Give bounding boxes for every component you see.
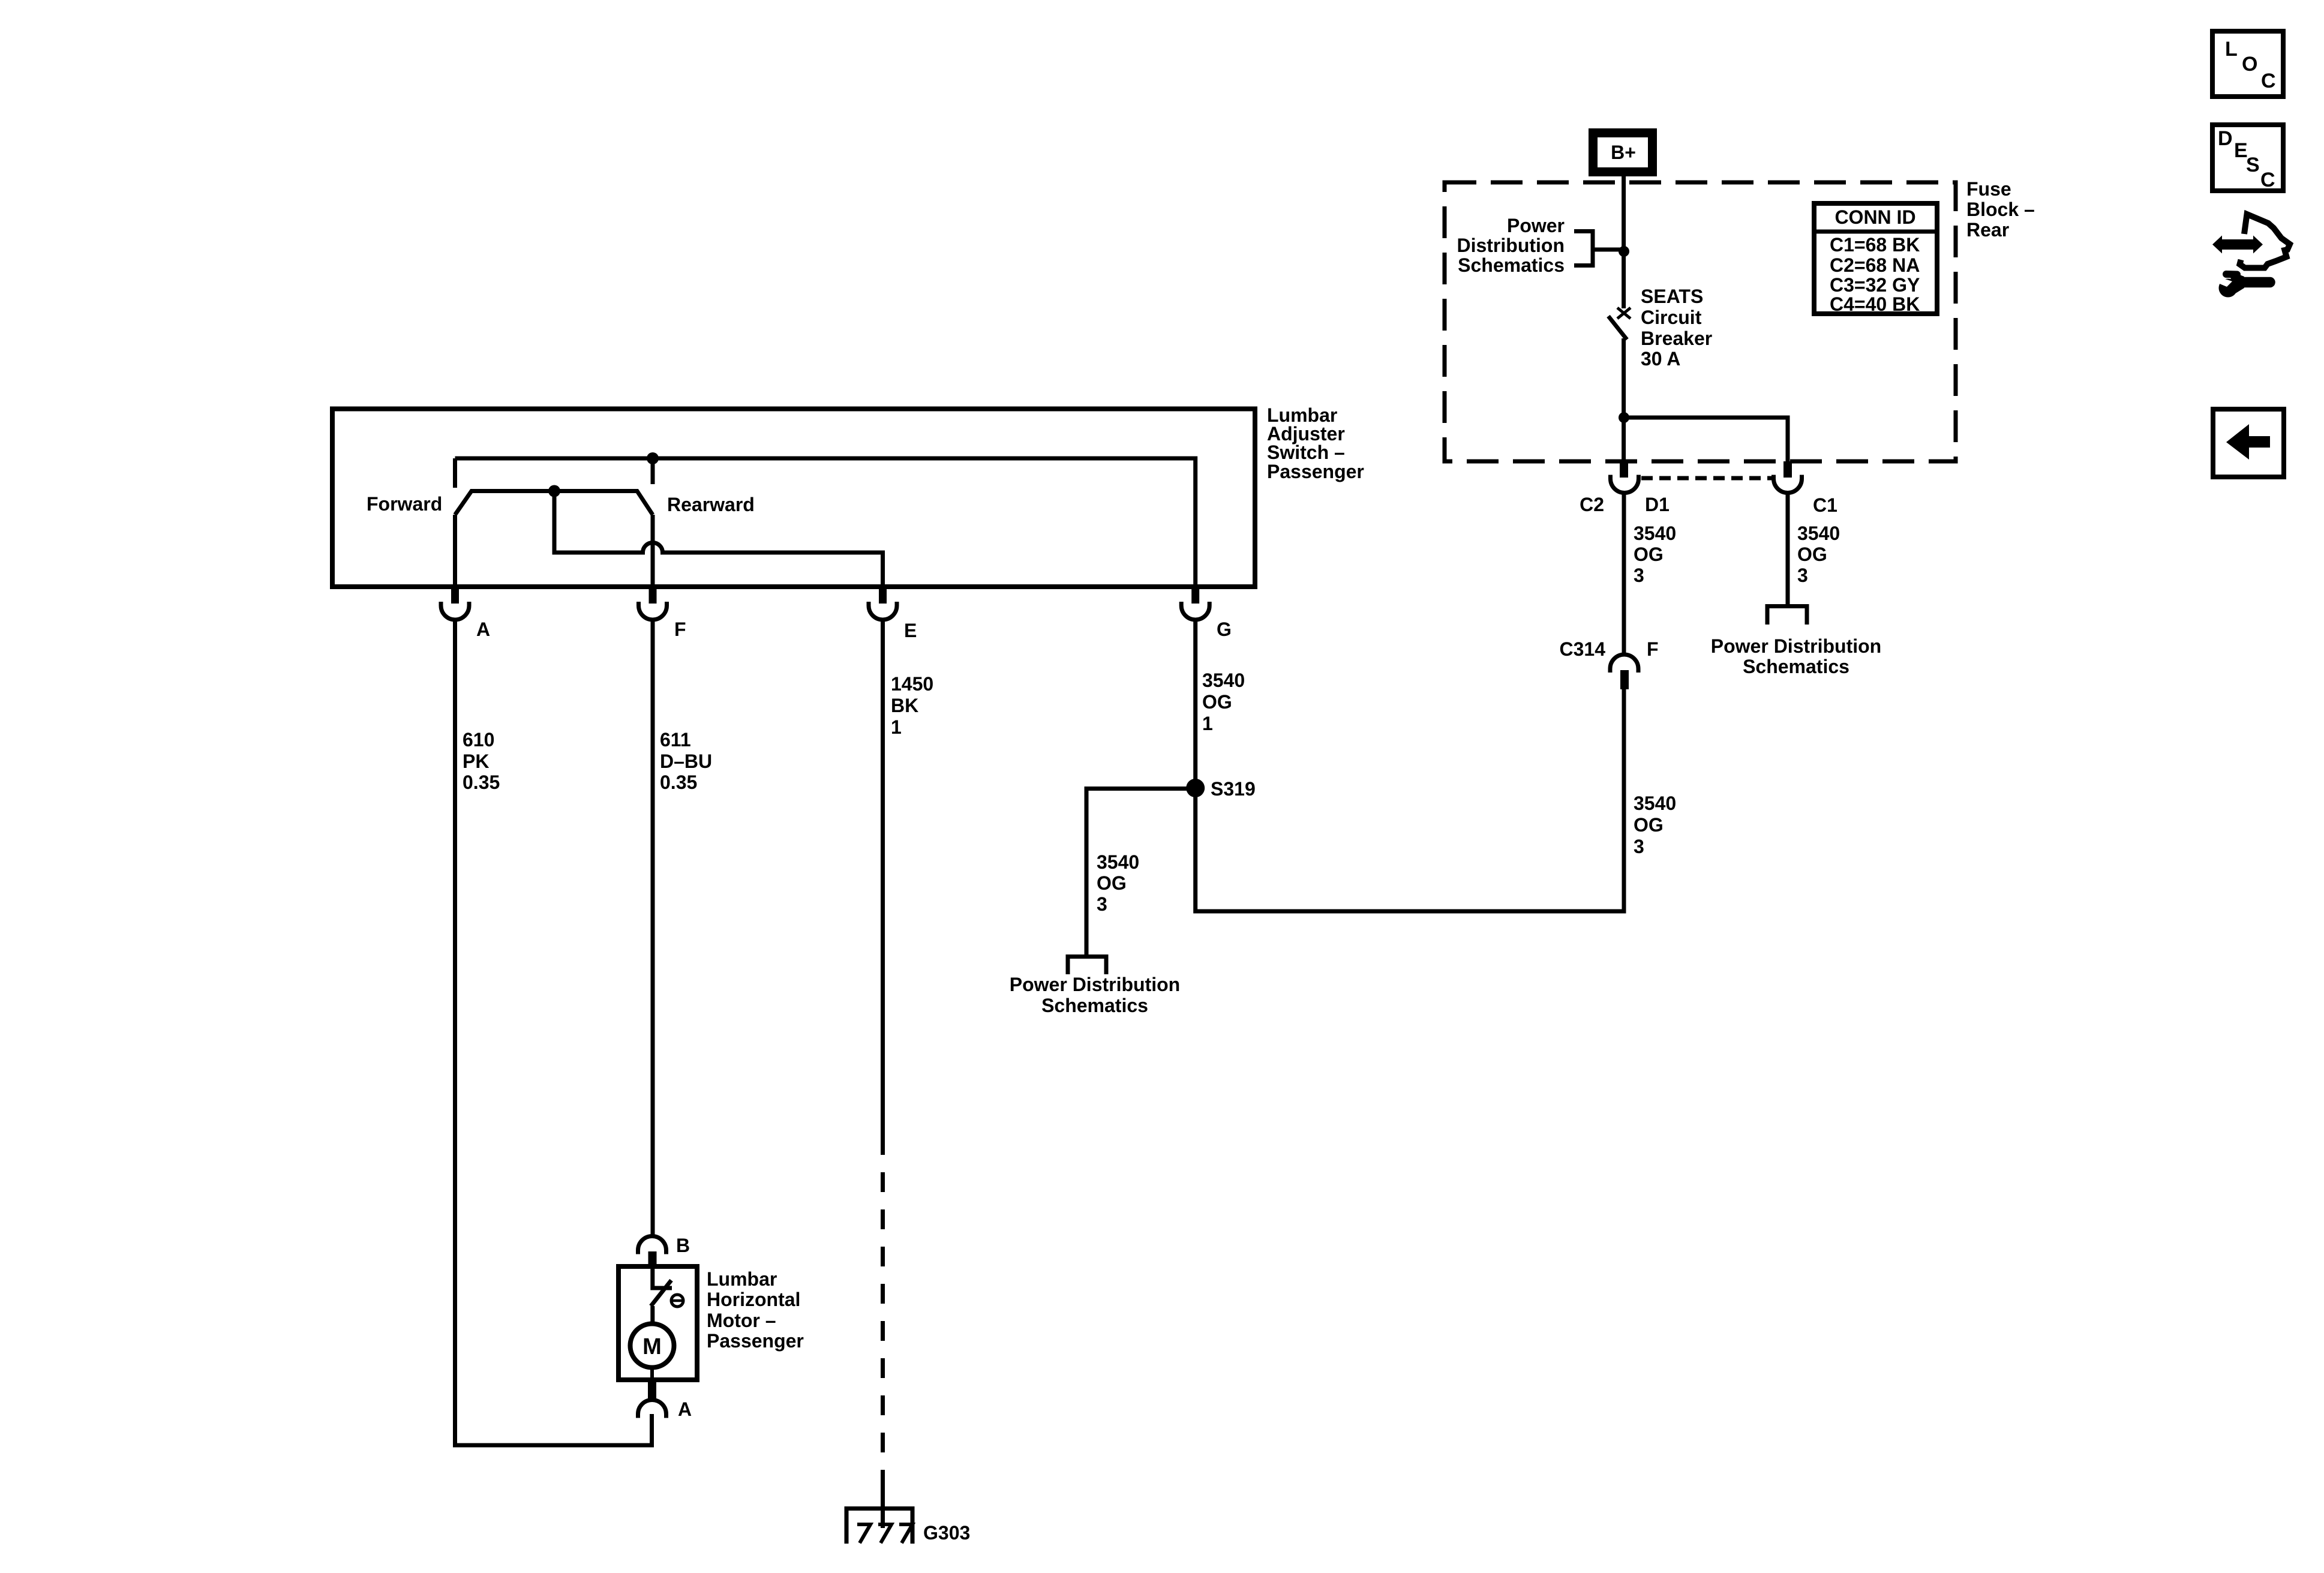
connector C314 pin F [1560, 638, 1659, 689]
svg-text:1: 1 [891, 716, 902, 738]
forward contact [453, 458, 457, 488]
svg-text:Block –: Block – [1966, 199, 2035, 220]
wire bracket to main line [1593, 248, 1624, 252]
connector A (switch) [441, 589, 490, 640]
svg-text:OG: OG [1634, 544, 1664, 565]
svg-text:D1: D1 [1645, 494, 1670, 515]
circuit breaker SEATS 30 A [1608, 308, 1631, 340]
svg-text:Motor –: Motor – [707, 1310, 776, 1331]
svg-text:Rear: Rear [1966, 219, 2009, 241]
connector A (motor) [638, 1380, 692, 1420]
wire label 610 PK 0.35 [463, 729, 500, 793]
junction rearward contact [647, 452, 659, 464]
svg-text:Switch –: Switch – [1267, 442, 1345, 463]
label Lumbar Horizontal Motor - Passenger [707, 1268, 804, 1352]
junction split to C1 [1619, 412, 1629, 423]
connector G (switch) [1181, 589, 1232, 640]
connector F (switch) [639, 589, 686, 640]
svg-text:G: G [1217, 619, 1232, 640]
wire label 611 D-BU 0.35 [660, 729, 712, 793]
svg-text:3540: 3540 [1202, 670, 1245, 691]
connector C1 [1774, 461, 1837, 516]
bridge tap wire to E with hop over F [554, 491, 883, 587]
svg-text:CONN ID: CONN ID [1834, 206, 1915, 228]
svg-text:Circuit: Circuit [1641, 307, 1702, 328]
svg-text:D–BU: D–BU [660, 751, 712, 772]
svg-text:O: O [2242, 53, 2257, 76]
svg-text:L: L [2225, 38, 2238, 61]
icon back arrow [2213, 409, 2284, 477]
svg-text:611: 611 [660, 729, 691, 751]
wire breaker to C2 exit [1622, 338, 1626, 463]
wire breaker to motor [650, 1306, 654, 1325]
icon DESC [2212, 125, 2283, 191]
connector B (motor) [638, 1235, 690, 1267]
svg-text:BK: BK [891, 695, 918, 716]
svg-text:3: 3 [1634, 565, 1644, 586]
wire S319 to power distribution reference [1086, 789, 1196, 957]
svg-text:Schematics: Schematics [1041, 995, 1148, 1016]
junction bridge tap [548, 485, 560, 497]
svg-text:OG: OG [1634, 814, 1664, 836]
wire C2 to C314 [1622, 493, 1626, 655]
svg-text:30 A: 30 A [1641, 348, 1680, 370]
svg-text:OG: OG [1202, 691, 1232, 713]
svg-text:Lumbar: Lumbar [707, 1268, 777, 1290]
connector E (switch) [869, 589, 917, 641]
svg-text:F: F [674, 619, 686, 640]
schematic reference symbol (S319 branch) [1068, 957, 1106, 975]
wire C314 to S319 [1196, 689, 1624, 911]
svg-text:M: M [642, 1334, 662, 1359]
icon connector wrench [2212, 214, 2290, 298]
junction power distribution tap [1619, 246, 1629, 257]
wire F switch to motor B [651, 620, 655, 1236]
svg-text:C: C [2260, 169, 2275, 191]
svg-text:C1=68 BK: C1=68 BK [1830, 234, 1920, 256]
motor thermal breaker [651, 1266, 672, 1306]
wire to C1 exit [1624, 418, 1788, 463]
svg-text:Forward: Forward [367, 493, 442, 515]
wire B+ to circuit breaker [1622, 176, 1626, 308]
svg-text:G303: G303 [923, 1522, 970, 1544]
svg-text:Schematics: Schematics [1458, 254, 1565, 276]
svg-text:Horizontal: Horizontal [707, 1289, 800, 1310]
svg-text:S: S [2246, 154, 2260, 176]
svg-text:1: 1 [1202, 713, 1213, 734]
wire A inside box [453, 515, 457, 587]
svg-text:Passenger: Passenger [1267, 461, 1364, 482]
svg-text:C4=40 BK: C4=40 BK [1830, 293, 1920, 315]
motor M [630, 1324, 674, 1368]
svg-text:Breaker: Breaker [1641, 328, 1712, 349]
svg-text:Power Distribution: Power Distribution [1010, 974, 1180, 995]
svg-text:C: C [2261, 70, 2276, 92]
svg-text:Fuse: Fuse [1966, 178, 2011, 200]
label Power Distribution Schematics (C1) [1711, 635, 1881, 677]
wire C1 to power distribution reference [1786, 493, 1790, 607]
wire label 3540 OG 3 (C2 to C314) [1634, 523, 1676, 586]
wire G to S319 [1193, 620, 1197, 788]
power symbol B+ [1593, 133, 1653, 172]
svg-text:3540: 3540 [1634, 523, 1676, 544]
svg-text:SEATS: SEATS [1641, 286, 1703, 307]
splice S319 [1186, 779, 1205, 797]
lumbar adjuster switch box [332, 409, 1255, 587]
svg-text:Rearward: Rearward [667, 494, 755, 515]
wire label 3540 OG 3 (S319 branch) [1097, 851, 1139, 915]
wire label 3540 OG 3 (C1) [1797, 523, 1840, 586]
svg-text:3540: 3540 [1634, 792, 1676, 814]
svg-text:3: 3 [1097, 893, 1107, 915]
svg-text:610: 610 [463, 729, 494, 751]
rearward contact [651, 458, 655, 484]
svg-text:Passenger: Passenger [707, 1330, 804, 1352]
wire motor to box bottom [650, 1368, 654, 1380]
svg-text:C314: C314 [1560, 638, 1606, 660]
svg-text:B+: B+ [1611, 142, 1636, 163]
wire label 3540 OG 1 [1202, 670, 1245, 734]
wire A switch to motor [455, 620, 652, 1445]
svg-text:PK: PK [463, 751, 489, 772]
svg-text:OG: OG [1797, 544, 1827, 565]
svg-text:Distribution: Distribution [1457, 235, 1565, 256]
switch internal supply line from G [455, 458, 1196, 587]
wire label 1450 BK 1 [891, 673, 933, 738]
label Lumbar Adjuster Switch - Passenger [1267, 404, 1364, 482]
svg-text:C1: C1 [1813, 494, 1837, 516]
svg-text:C3=32 GY: C3=32 GY [1830, 274, 1920, 296]
svg-text:Schematics: Schematics [1743, 656, 1849, 677]
svg-text:3540: 3540 [1797, 523, 1840, 544]
svg-text:0.35: 0.35 [660, 772, 697, 793]
reference Power Distribution Schematics (fuse block) [1457, 215, 1593, 276]
svg-text:OG: OG [1097, 872, 1127, 894]
svg-text:3: 3 [1797, 565, 1808, 586]
label Power Distribution Schematics (S319 branch) [1010, 974, 1180, 1016]
switch bridge [455, 491, 653, 515]
wire label 3540 OG 3 (C314 to S319) [1634, 792, 1676, 857]
svg-text:E: E [904, 620, 917, 641]
svg-text:Power Distribution: Power Distribution [1711, 635, 1881, 657]
circle minus thermal symbol [671, 1295, 683, 1307]
svg-text:A: A [678, 1398, 692, 1420]
svg-text:D: D [2218, 127, 2233, 150]
icon LOC [2212, 31, 2283, 97]
svg-text:3540: 3540 [1097, 851, 1139, 873]
label Fuse Block - Rear [1966, 178, 2035, 241]
connector C2 pin D1 [1580, 461, 1670, 515]
lumbar horizontal motor box [618, 1266, 697, 1380]
CONN ID table [1814, 203, 1937, 315]
ground G303 [846, 1488, 970, 1544]
svg-text:Power: Power [1507, 215, 1565, 236]
wire E to ground solid part [881, 620, 885, 1155]
svg-text:C2=68 NA: C2=68 NA [1830, 254, 1920, 276]
fuse block rear dashed boundary [1445, 182, 1956, 461]
svg-text:F: F [1647, 638, 1659, 660]
label SEATS Circuit Breaker 30 A [1641, 286, 1712, 370]
svg-text:A: A [476, 619, 490, 640]
wire F inside box [651, 515, 655, 587]
svg-text:1450: 1450 [891, 673, 933, 695]
wire E to ground dashed part [881, 1172, 885, 1494]
svg-text:3: 3 [1634, 836, 1644, 857]
svg-text:0.35: 0.35 [463, 772, 500, 793]
svg-text:B: B [676, 1235, 690, 1256]
schematic reference symbol (C1) [1767, 607, 1807, 625]
svg-text:C2: C2 [1580, 494, 1604, 515]
connector face dashed line [1641, 476, 1772, 481]
svg-text:S319: S319 [1211, 778, 1256, 800]
